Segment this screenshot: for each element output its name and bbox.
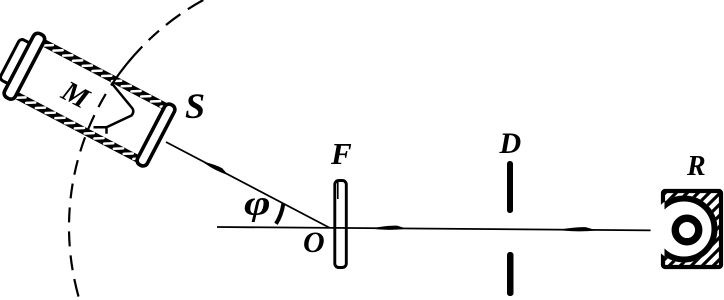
diaphragm D upper bar	[507, 161, 513, 213]
svg-text:φ: φ	[244, 183, 271, 222]
right flange (window S)	[135, 102, 176, 167]
tube lower wall	[13, 91, 143, 164]
ring socket	[675, 218, 699, 242]
horizontal axis line	[217, 227, 672, 231]
dashed arc (rotation circle around O)	[69, 0, 203, 300]
svg-text:O: O	[303, 226, 325, 259]
svg-text:D: D	[499, 127, 522, 160]
inner mark on plate	[337, 181, 339, 199]
left flange	[2, 32, 46, 101]
cutout C arc	[654, 199, 715, 260]
tube upper wall	[40, 39, 170, 112]
svg-text:F: F	[330, 136, 352, 171]
X-ray tube M assembly (rotated group)	[0, 27, 178, 170]
arrow 1 on axis	[375, 225, 407, 229]
arrow 2 on axis	[562, 227, 597, 232]
diaphragm D lower bar	[507, 252, 514, 296]
arrow on beam line	[204, 160, 230, 176]
beam line S to O	[166, 142, 330, 228]
svg-text:M: M	[56, 74, 96, 115]
filter plate F	[335, 181, 347, 268]
label phi	[244, 183, 271, 222]
end knob	[0, 38, 32, 85]
svg-text:S: S	[185, 86, 205, 126]
detector R square (hatched)	[651, 191, 722, 267]
svg-text:R: R	[686, 151, 706, 182]
anode (pointed electrode inside tube)	[94, 83, 134, 134]
angle arc at O	[276, 204, 283, 224]
cutout white disc	[651, 196, 718, 263]
